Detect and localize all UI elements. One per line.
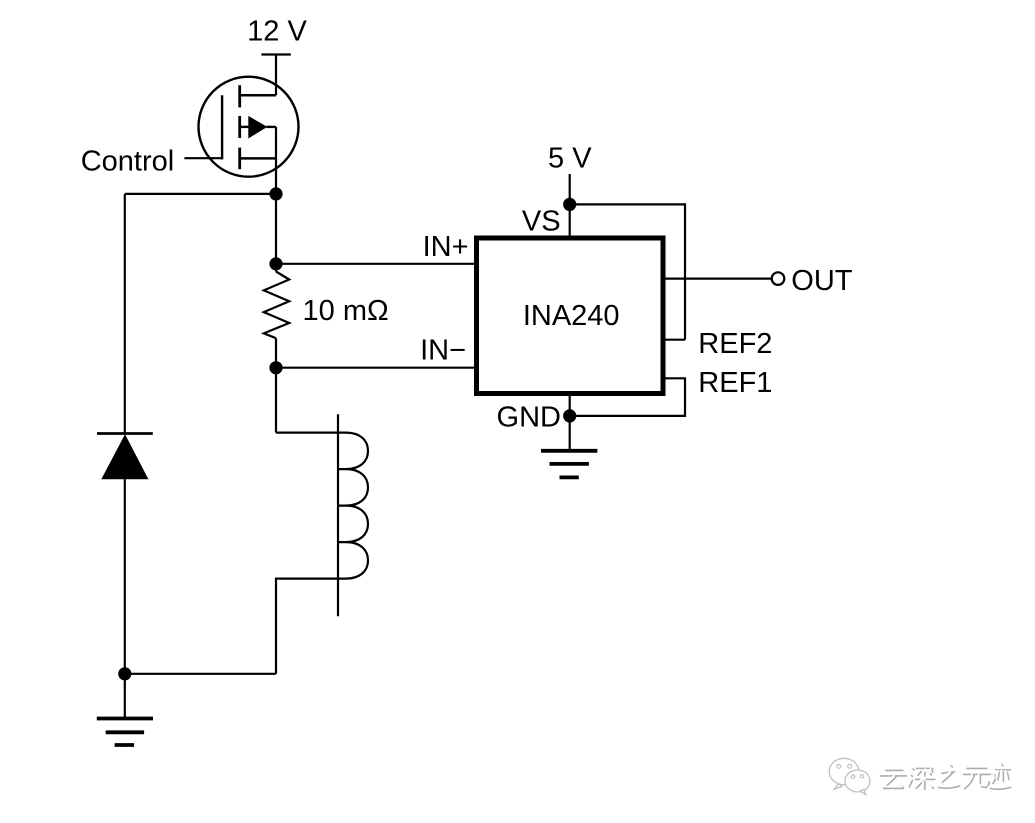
svg-text:REF2: REF2 [698,328,772,360]
wire VS node to REF2 feedback [570,204,685,339]
transistor Q1 channel dashes [238,85,241,169]
transistor Q1 body arrow [248,116,267,139]
wire node A down to IN+ node [275,194,277,272]
ground symbol right [541,451,597,478]
svg-text:IN+: IN+ [423,231,469,263]
transistor Q1 source bar [240,157,276,160]
wire 12V rail to drain [275,55,277,96]
diode D1 triangle [101,434,148,479]
svg-text:VS: VS [522,206,561,238]
node B junction dot [118,667,131,680]
svg-text:Control: Control [81,146,175,178]
svg-text:IN−: IN− [420,335,466,367]
transistor Q1 drain bar [240,94,276,97]
inductor L1 axis line [337,414,339,616]
transistor Q1 body wire to source node [267,126,277,128]
svg-text:GND: GND [497,402,561,434]
svg-text:OUT: OUT [791,265,853,297]
wire inductor bottom lead [276,579,338,674]
pin REF1 stub and wire to GND node [570,378,685,416]
node IN+ junction dot [269,257,282,270]
op-amp U1 INA240 box [477,238,664,394]
ground symbol left [97,719,153,746]
wire IN- node to INA240 [276,367,475,369]
transistor Q1 body stub [240,126,250,128]
watermark text yun shen zhi wu ji [879,762,1011,790]
inductor L1 humps [338,433,368,579]
node VS junction dot [563,198,576,211]
wire diode anode down [124,479,126,674]
pin REF2 stub [663,339,685,341]
svg-text:5 V: 5 V [548,143,592,175]
resistor R shunt zigzag [264,272,289,339]
wire IN+ node to INA240 [276,263,475,265]
svg-text:INA240: INA240 [523,300,620,332]
svg-text:12 V: 12 V [247,16,307,48]
pin GND lead [569,394,571,451]
wire node B to ground [124,674,126,719]
wire left branch down to diode [124,194,126,434]
transistor Q1 gate electrode [221,95,223,159]
transistor Q1 PMOS body circle [199,77,299,177]
wire resistor bottom to inductor top [275,338,277,432]
pin OUT wire [663,278,772,280]
wire Q1 source down to node A [275,127,277,194]
node A junction dot [269,187,282,200]
wire 5V lead to VS pin [569,174,571,238]
power rail 12V T-bar [261,53,290,55]
wire inductor top lead [276,432,338,434]
svg-text:REF1: REF1 [698,367,772,399]
diode D1 cathode bar [97,432,153,435]
wire gate lead [184,157,221,159]
svg-text:10 mΩ: 10 mΩ [303,295,389,327]
watermark logo wechat bubbles [829,758,870,794]
node GND junction dot [563,409,576,422]
wire bottom net to ground node [125,673,276,675]
wire node A to left branch [125,193,276,195]
terminal OUT open circle [772,272,785,285]
node IN- junction dot [269,361,282,374]
